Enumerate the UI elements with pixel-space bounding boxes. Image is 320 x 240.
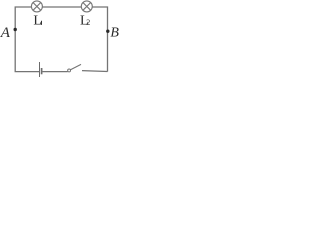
svg-text:L: L bbox=[33, 14, 42, 29]
wire: battery to switch bbox=[43, 71, 68, 73]
node B bbox=[106, 30, 109, 33]
wire: switch fixed contact to bottom right corner bbox=[82, 70, 108, 73]
node A bbox=[14, 28, 17, 31]
switch pivot circle bbox=[68, 69, 71, 72]
switch lever bbox=[71, 64, 82, 69]
svg-text:A: A bbox=[0, 25, 11, 41]
battery cell: short thick plate bbox=[41, 68, 43, 74]
wire: top segment between lamps bbox=[42, 6, 81, 8]
wire: top right segment and right vertical through node B bbox=[92, 7, 107, 72]
lamp L2 bbox=[81, 1, 92, 12]
wire: left vertical branch through node A bbox=[15, 7, 39, 72]
lamp L1 bbox=[31, 1, 42, 12]
svg-text:2: 2 bbox=[86, 18, 90, 27]
battery cell: long plate bbox=[39, 62, 41, 77]
svg-text:B: B bbox=[110, 25, 119, 40]
